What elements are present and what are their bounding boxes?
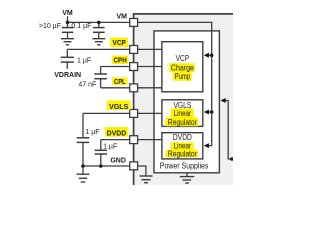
svg-text:VM: VM xyxy=(117,13,128,20)
svg-text:1 µF: 1 µF xyxy=(103,143,117,150)
svg-text:DVDD: DVDD xyxy=(173,133,192,142)
svg-text:VM: VM xyxy=(62,10,73,17)
svg-text:>10 µF: >10 µF xyxy=(39,23,61,30)
svg-text:VCP: VCP xyxy=(113,40,127,47)
svg-text:Regulator: Regulator xyxy=(168,149,197,158)
svg-text:CPH: CPH xyxy=(113,57,126,64)
svg-text:Pump: Pump xyxy=(175,72,191,81)
svg-text:Linear: Linear xyxy=(174,109,192,118)
svg-text:DVDD: DVDD xyxy=(107,130,126,137)
svg-text:Regulator: Regulator xyxy=(168,118,197,127)
svg-text:VCP: VCP xyxy=(176,54,190,63)
svg-text:GND: GND xyxy=(110,158,126,165)
svg-text:1 µF: 1 µF xyxy=(77,57,91,64)
svg-text:VDRAIN: VDRAIN xyxy=(54,72,81,79)
svg-text:0.1 µF: 0.1 µF xyxy=(71,23,91,30)
svg-text:Power Supplies: Power Supplies xyxy=(160,161,209,170)
svg-text:CPL: CPL xyxy=(114,79,126,86)
svg-text:47 nF: 47 nF xyxy=(78,81,96,88)
svg-text:1 µF: 1 µF xyxy=(85,129,99,136)
svg-text:VGLS: VGLS xyxy=(109,104,129,111)
